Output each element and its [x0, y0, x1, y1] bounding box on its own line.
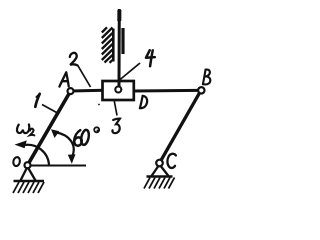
support triangle at O: [21, 168, 36, 181]
label D: [140, 96, 147, 108]
speck: [97, 130, 99, 132]
label 60: [74, 129, 90, 145]
pivot B: [198, 87, 204, 93]
ground line at O: [14, 180, 45, 183]
link 2 (A to slider): [71, 89, 104, 93]
label 3: [112, 119, 119, 134]
label 1: [35, 94, 39, 107]
link D-B: [134, 89, 199, 93]
guide hatched wall left of rod: [102, 27, 113, 63]
support triangle at C: [152, 166, 169, 177]
slider block 3: [103, 81, 134, 100]
omega2 arrowhead: [15, 140, 27, 148]
label B: [203, 70, 210, 85]
link 1 (crank O-A): [28, 91, 71, 165]
paper background: [0, 0, 225, 216]
label A: [59, 72, 68, 86]
guide wall right solid edge: [112, 29, 115, 62]
pivot O: [25, 162, 31, 168]
omega2 curved arrow: [25, 145, 49, 165]
pivot A: [68, 88, 74, 94]
leader line 2: [78, 66, 91, 87]
omega subscript 2: [30, 129, 34, 136]
ground hatching at C: [144, 178, 175, 189]
label C: [167, 154, 175, 168]
60 degree arc: [57, 133, 74, 158]
pivot C: [156, 160, 163, 167]
link B-C: [160, 90, 202, 163]
leader line 3: [114, 100, 117, 116]
guide black bar right of rod: [121, 28, 124, 54]
rod top thick end: [117, 10, 121, 21]
label omega2: [17, 124, 29, 133]
60 arc bottom arrowhead: [68, 154, 76, 164]
label O: [13, 157, 21, 167]
speck: [98, 104, 100, 106]
pin D in block: [115, 87, 121, 93]
rod 4 (vertical slider rod): [118, 9, 121, 87]
leader line 1: [42, 105, 58, 114]
label 4: [146, 50, 155, 66]
ground line at C: [147, 175, 173, 178]
60 arc top arrowhead: [51, 129, 59, 138]
rod stub into block: [118, 81, 121, 87]
ground hatching at O: [13, 182, 44, 193]
degree sign: [94, 127, 99, 132]
leader line 4: [120, 63, 141, 80]
label 2: [70, 53, 78, 65]
horizontal reference line at O: [28, 165, 87, 167]
